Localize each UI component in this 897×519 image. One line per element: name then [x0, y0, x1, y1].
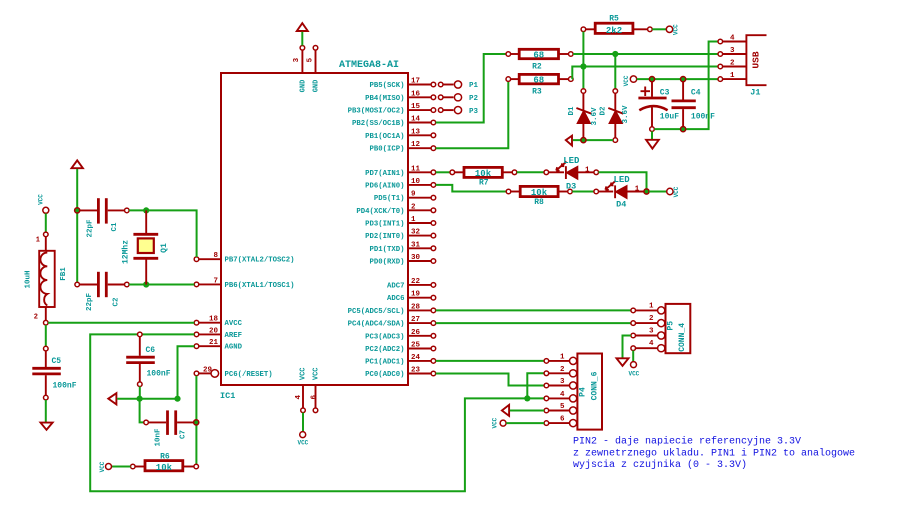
wire D1/D2 bottom gnd	[573, 139, 613, 141]
wire R5/D1 vertical	[582, 32, 584, 89]
svg-text:R6: R6	[160, 453, 170, 462]
svg-text:27: 27	[411, 316, 420, 324]
svg-text:PD4(XCK/T0): PD4(XCK/T0)	[356, 208, 404, 216]
wire pin4 to VCC	[302, 413, 304, 432]
svg-text:22: 22	[411, 278, 421, 286]
wire D3 to D4 junction	[599, 172, 647, 189]
svg-text:3: 3	[730, 47, 735, 55]
svg-text:1: 1	[411, 216, 416, 224]
svg-text:LED: LED	[614, 175, 631, 185]
wire VCC to R6	[112, 466, 131, 468]
wire VCC to FB1 pin1	[45, 213, 47, 232]
svg-text:30: 30	[411, 254, 421, 262]
svg-text:2: 2	[560, 366, 565, 374]
capacitor C5 100nF	[32, 346, 76, 400]
svg-text:R7: R7	[479, 179, 489, 188]
power VCC below IC	[297, 432, 308, 447]
P5 pin 1	[631, 302, 665, 314]
junction C1 left	[75, 208, 80, 213]
wire R2 to USB pin3	[573, 53, 718, 55]
svg-text:CONN_4: CONN_4	[678, 323, 687, 352]
wire trunk gnd to C1/C2	[76, 169, 78, 285]
svg-text:5: 5	[307, 57, 315, 62]
svg-text:22pF: 22pF	[86, 293, 94, 312]
svg-text:PC4(ADC4/SDA): PC4(ADC4/SDA)	[348, 321, 405, 329]
svg-text:1: 1	[560, 353, 565, 361]
IC1 pin 10 PD6(AIN0)	[365, 178, 436, 191]
svg-text:3: 3	[649, 328, 654, 336]
svg-text:J1: J1	[750, 88, 760, 98]
wire P5 pin3 to gnd	[623, 336, 631, 358]
svg-text:4: 4	[649, 340, 654, 348]
svg-text:P3: P3	[469, 108, 479, 116]
IC1 pin 29 PC6(/RESET) inverted	[194, 366, 272, 379]
svg-text:3.6V: 3.6V	[591, 107, 599, 126]
svg-text:PB5(SCK): PB5(SCK)	[369, 82, 404, 90]
IC1 pin 18 AVCC	[194, 316, 242, 329]
P4 pin 1	[544, 353, 577, 364]
svg-text:31: 31	[411, 241, 421, 249]
svg-text:VCC: VCC	[297, 440, 308, 447]
junction AGND row	[174, 396, 180, 402]
svg-text:R3: R3	[532, 88, 542, 97]
IC1 pin 3 GND	[293, 46, 307, 93]
svg-text:VCC: VCC	[99, 461, 106, 472]
svg-text:4: 4	[730, 35, 735, 43]
svg-text:22pF: 22pF	[87, 219, 95, 238]
svg-text:2k2: 2k2	[606, 26, 622, 36]
power VCC left of P4 pin6	[492, 417, 506, 428]
wire C3/C4 gnd row to USB pin4	[654, 42, 718, 130]
wire AREF net to P4 pin4	[90, 334, 544, 491]
junction C7 right	[194, 420, 199, 425]
wire VCC to P4 pin6	[506, 422, 544, 424]
svg-text:18: 18	[209, 316, 219, 324]
wire C3 to ground	[651, 131, 653, 139]
svg-text:z zewnetrznego ukladu. PIN1 i: z zewnetrznego ukladu. PIN1 i PIN2 to an…	[573, 447, 855, 459]
wire pin12 to R3	[436, 81, 509, 148]
zener D2 3.6V	[600, 89, 630, 143]
svg-text:2: 2	[649, 315, 654, 323]
svg-text:25: 25	[411, 342, 421, 350]
wire C5 to ground	[45, 400, 47, 422]
svg-text:PC0(ADC0): PC0(ADC0)	[365, 371, 404, 379]
IC1 pin 9 PD5(T1)	[374, 191, 436, 204]
svg-text:PB3(MOSI/OC2): PB3(MOSI/OC2)	[348, 108, 405, 116]
svg-text:R8: R8	[534, 198, 544, 207]
IC1 pin 31 PD1(TXD)	[369, 241, 435, 254]
svg-text:PB4(MISO): PB4(MISO)	[365, 95, 404, 103]
svg-text:C2: C2	[113, 297, 121, 307]
resistor R3 68	[506, 74, 573, 96]
svg-text:8: 8	[213, 252, 218, 260]
USB pin 4	[718, 35, 746, 44]
IC1 pin 24 PC1(ADC1)	[365, 354, 436, 367]
wire AVCC net	[48, 322, 194, 324]
svg-text:VCC: VCC	[37, 194, 44, 205]
P5 pin 4	[631, 340, 665, 352]
svg-text:14: 14	[411, 116, 421, 124]
IC1 pin 32 PD2(INT0)	[365, 229, 436, 242]
capacitor C3 10uF polarized	[638, 77, 679, 132]
wire C2 to crystal bottom / pin7	[129, 284, 194, 286]
svg-text:VCC: VCC	[312, 367, 320, 380]
svg-text:ADC7: ADC7	[387, 282, 405, 290]
svg-text:Q1: Q1	[160, 243, 169, 253]
wire D2 vertical	[614, 54, 616, 89]
svg-text:PD0(RXD): PD0(RXD)	[369, 259, 404, 267]
LED D4	[594, 175, 649, 210]
svg-text:2: 2	[411, 203, 416, 211]
wire P4 pin2 jog	[527, 373, 544, 398]
USB connector J1	[746, 35, 766, 97]
wire C6 bottom to gnd row and down to C7	[140, 387, 144, 423]
svg-text:3.6V: 3.6V	[622, 105, 630, 124]
power VCC top-left	[37, 194, 48, 214]
svg-text:1: 1	[730, 72, 735, 80]
svg-text:PC1(ADC1): PC1(ADC1)	[365, 358, 404, 366]
svg-text:D1: D1	[568, 106, 576, 116]
IC1 pin 28 PC5(ADC5/SCL)	[348, 303, 436, 316]
wire R8 to D4	[572, 191, 594, 193]
power VCC right of D4	[667, 186, 681, 197]
IC1 pin 11 PD7(AIN1)	[365, 165, 436, 178]
svg-text:P5: P5	[666, 321, 675, 331]
svg-text:C7: C7	[180, 430, 188, 439]
junction crystal bottom	[143, 281, 149, 287]
svg-text:wyjscia z czujnika (0 - 3.3V): wyjscia z czujnika (0 - 3.3V)	[573, 459, 747, 471]
wire pin24 to P4 pin1	[436, 360, 544, 362]
svg-text:2: 2	[730, 60, 735, 68]
P4 pin 6	[544, 416, 577, 427]
power VCC left of C3	[623, 75, 637, 86]
svg-text:PB2(SS/OC1B): PB2(SS/OC1B)	[352, 120, 405, 128]
svg-text:R5: R5	[609, 15, 619, 24]
wire pin14 to R2	[436, 54, 506, 123]
svg-text:10nF: 10nF	[154, 428, 162, 447]
svg-text:PB6(XTAL1/TOSC1): PB6(XTAL1/TOSC1)	[225, 282, 295, 290]
IC1 pin 1 PD3(INT1)	[365, 216, 436, 229]
IC1 pin 15 PB3(MOSI/OC2)	[348, 103, 436, 116]
capacitor C4 100nF	[672, 77, 716, 127]
svg-text:FB1: FB1	[60, 267, 68, 281]
IC1 pin 27 PC4(ADC4/SDA)	[348, 316, 436, 329]
resistor R2 68	[506, 49, 573, 71]
crystal Q1 12Mhz	[122, 210, 169, 284]
svg-text:PC6(/RESET): PC6(/RESET)	[225, 371, 273, 379]
P4 pin 5	[544, 403, 577, 414]
svg-text:26: 26	[411, 329, 421, 337]
svg-text:LED: LED	[563, 156, 580, 166]
junction C4 bottom	[681, 127, 686, 132]
svg-text:10k: 10k	[156, 463, 173, 473]
IC1 pin 30 PD0(RXD)	[369, 254, 435, 267]
IC1 pin 8 PB7(XTAL2/TOSC2)	[194, 252, 294, 265]
svg-text:13: 13	[411, 128, 421, 136]
power VCC left of R6	[99, 461, 111, 472]
svg-text:5: 5	[560, 403, 565, 411]
LED D3	[544, 156, 599, 191]
connector P1	[438, 81, 478, 90]
svg-text:12Mhz: 12Mhz	[122, 240, 131, 264]
IC1 pin 17 PB5(SCK)	[369, 78, 435, 91]
svg-text:PB1(OC1A): PB1(OC1A)	[365, 133, 404, 141]
svg-text:VCC: VCC	[628, 371, 639, 378]
power VCC right of R5	[666, 24, 679, 35]
svg-text:68: 68	[533, 51, 544, 61]
ground top of crystal trunk	[295, 0, 297, 1]
svg-text:PD6(AIN0): PD6(AIN0)	[365, 182, 404, 190]
svg-text:VCC: VCC	[492, 417, 499, 428]
svg-text:1: 1	[635, 186, 640, 194]
svg-text:AGND: AGND	[225, 344, 243, 352]
wire pin27 to P5 pin2	[436, 322, 631, 324]
svg-text:VCC: VCC	[623, 75, 630, 86]
note text blue	[573, 436, 855, 472]
IC1 pin 12 PB0(ICP)	[369, 141, 435, 154]
svg-text:6: 6	[560, 416, 565, 424]
svg-text:P2: P2	[469, 95, 479, 103]
USB pin 3	[718, 47, 746, 56]
connector P5 CONN_4	[666, 304, 691, 353]
svg-text:C4: C4	[691, 89, 701, 98]
svg-text:20: 20	[209, 327, 219, 335]
P5 pin 2	[631, 315, 665, 327]
svg-text:3: 3	[293, 57, 301, 62]
P4 pin 4	[544, 391, 577, 402]
svg-text:PB7(XTAL2/TOSC2): PB7(XTAL2/TOSC2)	[225, 257, 295, 265]
capacitor C1 22pF	[80, 198, 129, 237]
svg-text:C5: C5	[52, 357, 62, 366]
svg-text:D2: D2	[600, 106, 608, 116]
P4 pin 3	[544, 378, 577, 389]
wire gnd to P4 pin5	[510, 410, 544, 412]
svg-text:1: 1	[649, 302, 654, 310]
ground left of C6	[108, 393, 116, 404]
svg-text:16: 16	[411, 90, 421, 98]
svg-text:PD5(T1): PD5(T1)	[374, 195, 405, 203]
svg-text:VCC: VCC	[673, 24, 680, 35]
svg-text:PC5(ADC5/SCL): PC5(ADC5/SCL)	[348, 308, 405, 316]
svg-text:C3: C3	[660, 89, 670, 98]
wire pin23 to P4 pin3	[436, 374, 544, 386]
junction P4 pin2/pin4	[524, 395, 530, 401]
svg-text:23: 23	[411, 367, 421, 375]
IC1 pin 20 AREF	[194, 327, 242, 340]
svg-text:10: 10	[411, 178, 421, 186]
junction D1 bottom	[581, 138, 586, 143]
IC1 pin 25 PC2(ADC2)	[365, 342, 436, 355]
svg-text:28: 28	[411, 303, 421, 311]
svg-text:PD7(AIN1): PD7(AIN1)	[365, 170, 404, 178]
svg-text:PIN2 - daje napiecie referency: PIN2 - daje napiecie referencyjne 3.3V	[573, 436, 801, 448]
svg-text:100nF: 100nF	[53, 382, 77, 391]
ground below C5	[41, 423, 53, 430]
connector P2	[438, 94, 478, 103]
IC1 pin 13 PB1(OC1A)	[365, 128, 436, 141]
IC U1 ATMEGA8-AI body	[220, 60, 408, 401]
IC1 pin 26 PC3(ADC3)	[365, 329, 436, 342]
svg-text:7: 7	[213, 277, 218, 285]
wire R3 to USB pin2	[572, 67, 718, 80]
ground left of D1	[566, 136, 572, 146]
ground above pin 3	[297, 23, 308, 31]
connector P4 CONN_6	[577, 354, 602, 430]
svg-text:32: 32	[411, 229, 421, 237]
wire ground row	[117, 398, 177, 400]
svg-text:10uF: 10uF	[660, 113, 679, 122]
junction D2 top	[612, 51, 618, 57]
IC1 pin 2 PD4(XCK/T0)	[356, 203, 435, 216]
wire C1 to crystal top / pin8	[129, 210, 197, 257]
svg-text:29: 29	[203, 366, 213, 374]
wire R5 to VCC	[652, 28, 666, 30]
svg-text:AREF: AREF	[225, 332, 243, 340]
svg-text:1: 1	[36, 237, 40, 245]
ground left of P4 pin5	[502, 405, 509, 416]
zener D1 3.6V	[568, 89, 599, 138]
svg-text:2: 2	[34, 314, 38, 322]
svg-text:PD3(INT1): PD3(INT1)	[365, 221, 404, 229]
svg-text:10k: 10k	[531, 188, 548, 198]
IC1 pin 19 ADC6	[387, 291, 436, 304]
connector P3	[438, 107, 478, 116]
resistor R7 10k	[450, 167, 517, 187]
junction D1/R5 on D-	[580, 63, 586, 69]
svg-text:100nF: 100nF	[691, 113, 715, 122]
capacitor C2 22pF	[75, 272, 129, 311]
junction C6 bottom	[137, 396, 143, 402]
IC1 pin 6 VCC	[310, 367, 320, 412]
resistor R6 10k	[131, 453, 199, 473]
svg-text:4: 4	[295, 394, 303, 399]
svg-text:9: 9	[411, 191, 416, 199]
IC1 pin 21 AGND	[194, 339, 242, 352]
svg-text:P4: P4	[579, 387, 588, 397]
IC1 pin 5 GND	[307, 46, 321, 93]
USB pin 2	[718, 60, 746, 69]
svg-text:R2: R2	[532, 63, 542, 72]
wire D4 to VCC	[649, 191, 667, 193]
wire pin11 to R7	[436, 171, 450, 173]
svg-text:24: 24	[411, 354, 421, 362]
wire VCC to C3 C4 USB pin1	[637, 78, 718, 80]
svg-text:PC2(ADC2): PC2(ADC2)	[365, 346, 404, 354]
svg-text:PC3(ADC3): PC3(ADC3)	[365, 333, 404, 341]
wire PC6 vertical to R6	[195, 376, 197, 467]
capacitor C7 10nF	[144, 410, 194, 446]
IC1 pin 14 PB2(SS/OC1B)	[352, 116, 436, 129]
junction crystal top	[143, 207, 149, 213]
svg-text:68: 68	[533, 76, 544, 86]
ground below C3	[646, 140, 659, 149]
svg-text:3: 3	[560, 378, 565, 386]
svg-text:USB: USB	[751, 51, 762, 68]
svg-text:D4: D4	[616, 199, 626, 209]
svg-text:19: 19	[411, 291, 421, 299]
svg-text:PD2(INT0): PD2(INT0)	[365, 233, 404, 241]
svg-text:VCC: VCC	[673, 186, 680, 197]
svg-text:1: 1	[585, 167, 590, 175]
wire P5 pin4 to VCC	[632, 351, 634, 362]
svg-text:11: 11	[411, 165, 421, 173]
wire AGND to ground row	[178, 346, 195, 399]
svg-text:C6: C6	[146, 346, 156, 355]
wire FB1 to C5	[45, 325, 47, 346]
wire pin28 to P5 pin1	[436, 309, 631, 311]
svg-text:GND: GND	[312, 80, 320, 93]
svg-text:17: 17	[411, 78, 420, 86]
svg-text:AVCC: AVCC	[225, 320, 243, 328]
IC1 pin 23 PC0(ADC0)	[365, 367, 436, 380]
ground below P5 pin3	[617, 358, 629, 366]
svg-text:ADC6: ADC6	[387, 295, 405, 303]
svg-text:ATMEGA8-AI: ATMEGA8-AI	[339, 60, 399, 71]
svg-text:CONN_6: CONN_6	[590, 371, 599, 400]
svg-text:PD1(TXD): PD1(TXD)	[369, 246, 404, 254]
IC1 pin 22 ADC7	[387, 278, 436, 291]
svg-text:10k: 10k	[475, 169, 492, 179]
wire gnd-arrow to pin 3	[301, 32, 303, 46]
P4 pin 2	[544, 366, 577, 377]
svg-text:IC1: IC1	[220, 391, 235, 401]
svg-text:21: 21	[209, 339, 219, 347]
svg-text:12: 12	[411, 141, 421, 149]
P5 pin 3	[631, 328, 665, 340]
wire pin10 to R8	[436, 185, 507, 192]
svg-text:15: 15	[411, 103, 421, 111]
USB pin 1	[718, 72, 746, 81]
wire R7 to D3	[517, 171, 544, 173]
svg-text:C1: C1	[111, 222, 119, 232]
IC1 pin 7 PB6(XTAL1/TOSC1)	[194, 277, 294, 290]
svg-text:4: 4	[560, 391, 565, 399]
svg-text:P1: P1	[469, 82, 479, 90]
svg-text:10uH: 10uH	[24, 270, 32, 288]
capacitor C6 100nF	[126, 332, 171, 386]
IC1 pin 4 VCC	[295, 367, 308, 412]
svg-text:6: 6	[310, 394, 318, 399]
svg-text:VCC: VCC	[300, 367, 308, 380]
svg-text:100nF: 100nF	[147, 370, 171, 379]
svg-text:GND: GND	[299, 80, 307, 93]
resistor R8 10k	[506, 186, 572, 207]
power VCC below P5	[628, 362, 639, 378]
inductor FB1 10uH	[24, 232, 68, 325]
svg-text:PB0(ICP): PB0(ICP)	[369, 146, 404, 154]
resistor R5 2k2	[581, 15, 652, 36]
IC1 pin 16 PB4(MISO)	[365, 90, 436, 103]
